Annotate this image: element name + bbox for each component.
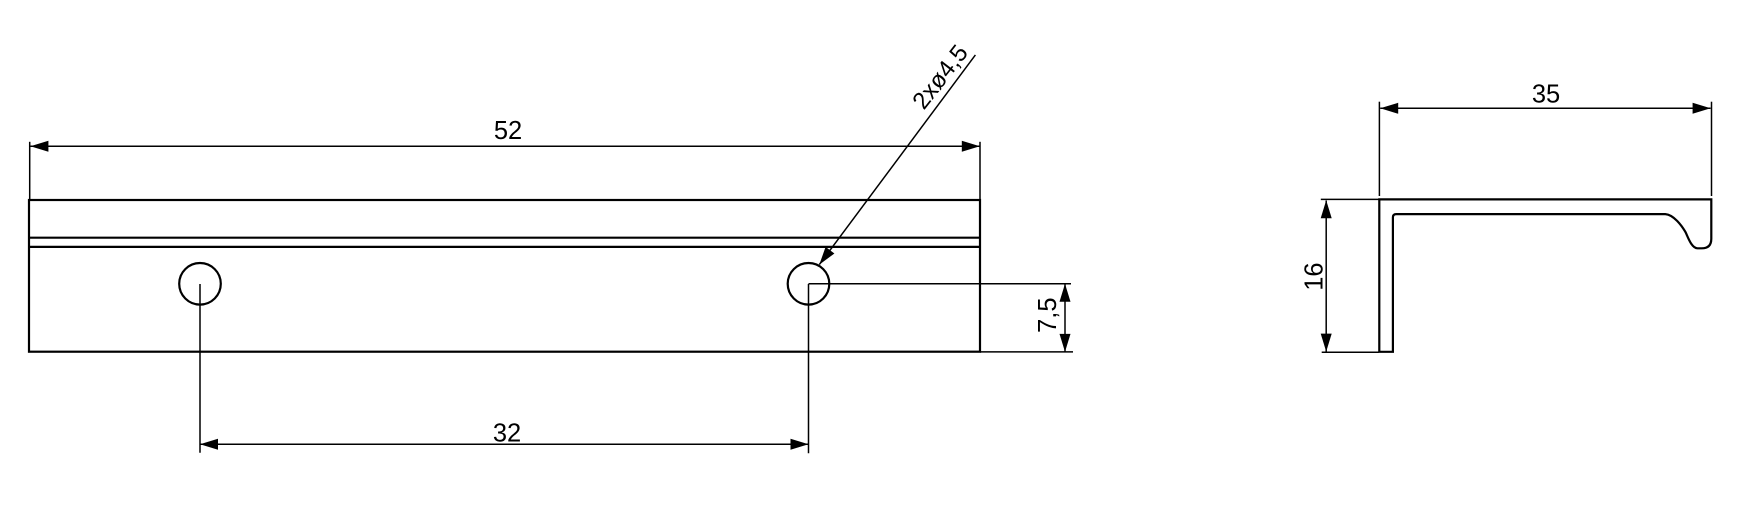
svg-text:7,5: 7,5 <box>1034 297 1062 332</box>
dim 7,5 extension line top (hole centerline) <box>809 283 1072 285</box>
dim 35 arrow right <box>1693 103 1711 114</box>
hole right <box>788 263 830 305</box>
front view groove line lower <box>29 246 980 248</box>
dim 32 line <box>200 443 809 445</box>
dim 7,5 line <box>1064 284 1066 352</box>
leader line 2x dia 4,5 <box>819 55 975 265</box>
svg-text:16: 16 <box>1300 262 1328 290</box>
dim 52 arrow left <box>30 141 48 152</box>
dim 52 line <box>30 145 979 147</box>
dim 16 extension line bottom <box>1322 351 1379 353</box>
dim 32 arrow left <box>200 439 218 450</box>
svg-text:35: 35 <box>1532 81 1560 109</box>
dim 16 arrow down <box>1321 334 1332 352</box>
dim 7,5 arrow down <box>1060 334 1071 352</box>
dim 16 arrow up <box>1321 200 1332 218</box>
svg-text:52: 52 <box>494 117 522 145</box>
dim 16 line <box>1325 201 1327 352</box>
side view profile <box>1379 199 1711 351</box>
dim 35 line <box>1380 107 1710 109</box>
dim 32 extension line right <box>808 284 810 453</box>
leader arrow <box>819 247 834 265</box>
dim 32 arrow right <box>791 439 809 450</box>
dim 7,5 extension line bottom <box>980 351 1073 353</box>
dim 35 extension line left <box>1378 102 1380 196</box>
hole left <box>179 263 221 305</box>
dim 52 arrow right <box>962 141 980 152</box>
dim 16 extension line top <box>1321 198 1379 200</box>
dim 35 extension line right <box>1711 102 1713 196</box>
svg-text:32: 32 <box>493 419 521 447</box>
dim 7,5 arrow up <box>1060 284 1071 302</box>
front view groove line upper <box>29 237 980 239</box>
dim 52 extension line right <box>979 142 981 199</box>
dim 52 extension line left <box>29 142 31 199</box>
dim 32 extension line left <box>199 284 201 453</box>
dim 35 arrow left <box>1380 103 1398 114</box>
front view body outline <box>29 200 980 352</box>
